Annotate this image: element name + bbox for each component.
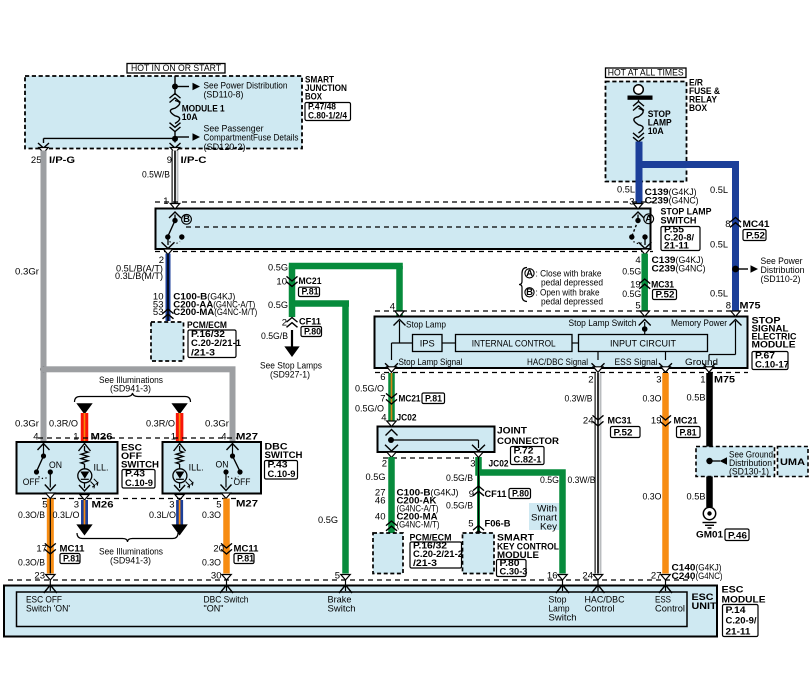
svg-text:JC02: JC02 bbox=[397, 413, 417, 424]
svg-text:C240(G4NC): C240(G4NC) bbox=[672, 571, 723, 582]
svg-text:P.81: P.81 bbox=[680, 427, 698, 438]
svg-text:0.5L: 0.5L bbox=[617, 185, 635, 196]
svg-text:24: 24 bbox=[582, 571, 593, 582]
svg-text:(SD110-8): (SD110-8) bbox=[204, 90, 244, 101]
svg-text:8: 8 bbox=[726, 301, 731, 312]
svg-text:B: B bbox=[526, 287, 533, 298]
svg-text:5: 5 bbox=[635, 301, 640, 312]
svg-text:C.10-9: C.10-9 bbox=[268, 469, 296, 480]
svg-text:P.52: P.52 bbox=[746, 230, 765, 241]
svg-text:/21-3: /21-3 bbox=[413, 558, 437, 569]
svg-text:UMA: UMA bbox=[780, 457, 805, 468]
svg-text:ON: ON bbox=[49, 460, 62, 471]
svg-text:B: B bbox=[183, 214, 190, 225]
svg-text:pedal depressed: pedal depressed bbox=[541, 297, 603, 308]
svg-text:A: A bbox=[645, 213, 652, 224]
svg-text:C.10-9: C.10-9 bbox=[125, 478, 153, 489]
svg-text:Stop Lamp: Stop Lamp bbox=[406, 320, 446, 331]
svg-text:M26: M26 bbox=[91, 432, 113, 443]
svg-text:P.46: P.46 bbox=[728, 530, 747, 541]
svg-text:0.3O: 0.3O bbox=[202, 510, 221, 521]
svg-text:0.3O: 0.3O bbox=[202, 558, 221, 569]
svg-text:MODULE: MODULE bbox=[722, 595, 766, 606]
svg-text:IPS: IPS bbox=[420, 339, 435, 350]
svg-text:3: 3 bbox=[470, 459, 475, 470]
svg-text:0.3O/B: 0.3O/B bbox=[18, 510, 45, 521]
svg-text:0.3R/O: 0.3R/O bbox=[49, 419, 78, 430]
svg-text:Switch: Switch bbox=[328, 604, 356, 615]
svg-text:ESS Signal: ESS Signal bbox=[615, 357, 658, 368]
svg-text:F06-B: F06-B bbox=[485, 519, 511, 530]
svg-text:MODULE: MODULE bbox=[752, 340, 796, 351]
svg-text:C239(G4NC): C239(G4NC) bbox=[652, 264, 706, 275]
svg-text:0.5G: 0.5G bbox=[540, 475, 559, 486]
svg-text:ON: ON bbox=[216, 460, 229, 471]
svg-text:"ON": "ON" bbox=[204, 604, 224, 615]
svg-text:17: 17 bbox=[36, 544, 47, 555]
svg-text:(SD130-1): (SD130-1) bbox=[729, 467, 769, 478]
svg-text:(G4NC-M/T): (G4NC-M/T) bbox=[397, 520, 440, 531]
svg-text:4: 4 bbox=[381, 413, 386, 424]
svg-text:0.5G/B: 0.5G/B bbox=[446, 473, 473, 484]
svg-text:C239(G4NC): C239(G4NC) bbox=[645, 196, 699, 207]
svg-text:CF11: CF11 bbox=[485, 489, 508, 500]
svg-text:21-11: 21-11 bbox=[726, 626, 752, 637]
svg-text:0.5G: 0.5G bbox=[268, 300, 288, 311]
svg-text:(SD941-3): (SD941-3) bbox=[110, 556, 151, 567]
svg-text:40: 40 bbox=[375, 512, 386, 523]
svg-text:JOINT: JOINT bbox=[497, 426, 527, 437]
svg-text:P.81: P.81 bbox=[425, 393, 443, 404]
svg-text:P.14: P.14 bbox=[726, 605, 747, 616]
svg-text:3: 3 bbox=[74, 500, 79, 511]
svg-text:9: 9 bbox=[167, 155, 172, 166]
svg-text:BOX: BOX bbox=[689, 103, 708, 114]
svg-text:10A: 10A bbox=[182, 112, 198, 123]
svg-text:M27: M27 bbox=[236, 432, 258, 443]
svg-text:5: 5 bbox=[468, 519, 473, 530]
svg-text:3: 3 bbox=[169, 500, 174, 511]
svg-text:ILL.: ILL. bbox=[94, 463, 109, 474]
svg-text:6: 6 bbox=[380, 372, 385, 383]
svg-text:M75: M75 bbox=[714, 375, 736, 386]
svg-text:0.3W/B: 0.3W/B bbox=[565, 394, 593, 405]
svg-text:P.52: P.52 bbox=[614, 427, 633, 438]
svg-text:0.5B: 0.5B bbox=[687, 492, 706, 503]
svg-text:0.3Gr: 0.3Gr bbox=[205, 419, 229, 430]
svg-text:C.82-1: C.82-1 bbox=[514, 454, 543, 465]
svg-text:19: 19 bbox=[651, 416, 662, 427]
svg-text:HOT AT ALL TIMES: HOT AT ALL TIMES bbox=[608, 68, 684, 79]
svg-text:OFF: OFF bbox=[23, 477, 40, 488]
svg-text:0.5G: 0.5G bbox=[622, 289, 641, 300]
svg-text:M27: M27 bbox=[236, 499, 258, 510]
svg-text:P.81: P.81 bbox=[302, 286, 320, 297]
svg-text:(SD927-1): (SD927-1) bbox=[270, 370, 310, 381]
svg-text:C200-MA(G4NC-M/T): C200-MA(G4NC-M/T) bbox=[173, 307, 257, 318]
svg-text:10: 10 bbox=[276, 277, 287, 288]
svg-text:INTERNAL CONTROL: INTERNAL CONTROL bbox=[472, 339, 556, 350]
svg-text:0.5G: 0.5G bbox=[622, 267, 641, 278]
svg-text:4: 4 bbox=[33, 432, 38, 443]
svg-text:21-11: 21-11 bbox=[664, 240, 690, 251]
svg-text:5: 5 bbox=[216, 500, 221, 511]
svg-text:0.3O: 0.3O bbox=[643, 394, 662, 405]
svg-text:Switch 'ON': Switch 'ON' bbox=[26, 604, 70, 615]
svg-text:C.30-3: C.30-3 bbox=[500, 566, 528, 577]
svg-text:9: 9 bbox=[469, 489, 474, 500]
svg-text:I/P-C: I/P-C bbox=[181, 155, 207, 166]
svg-text:P.80: P.80 bbox=[512, 488, 529, 499]
svg-text:5: 5 bbox=[42, 500, 47, 511]
svg-text:C.10-17: C.10-17 bbox=[755, 359, 789, 370]
svg-text:INPUT CIRCUIT: INPUT CIRCUIT bbox=[610, 339, 676, 350]
svg-text:0.5G/O: 0.5G/O bbox=[355, 404, 384, 415]
svg-text:Control: Control bbox=[655, 604, 685, 615]
svg-text:(SD110-2): (SD110-2) bbox=[761, 274, 801, 285]
svg-text:27: 27 bbox=[651, 571, 662, 582]
svg-text:(SD941-3): (SD941-3) bbox=[110, 383, 151, 394]
svg-text:0.3L/B(M/T): 0.3L/B(M/T) bbox=[115, 271, 163, 282]
svg-text:0.5G/B: 0.5G/B bbox=[261, 331, 288, 342]
svg-text:P.52: P.52 bbox=[656, 289, 675, 300]
svg-text:16: 16 bbox=[547, 571, 558, 582]
svg-text:8: 8 bbox=[725, 219, 730, 230]
svg-text:0.5L: 0.5L bbox=[710, 289, 728, 300]
svg-text:53: 53 bbox=[153, 307, 164, 318]
svg-text:MC31: MC31 bbox=[608, 416, 633, 427]
svg-text:2: 2 bbox=[588, 375, 593, 386]
svg-text:0.5L: 0.5L bbox=[710, 240, 728, 251]
svg-text:C.80-1/2/4: C.80-1/2/4 bbox=[308, 110, 348, 121]
svg-text:0.3W/B: 0.3W/B bbox=[568, 475, 596, 486]
svg-text:0.5W/B: 0.5W/B bbox=[142, 170, 170, 181]
svg-text:0.3Gr: 0.3Gr bbox=[15, 419, 39, 430]
svg-text:0.3R/O: 0.3R/O bbox=[146, 419, 175, 430]
svg-text:UNIT: UNIT bbox=[692, 601, 717, 612]
svg-text:1: 1 bbox=[171, 432, 176, 443]
svg-text:4: 4 bbox=[221, 432, 226, 443]
svg-text:Stop Lamp Switch: Stop Lamp Switch bbox=[569, 318, 637, 329]
svg-text:/21-3: /21-3 bbox=[191, 347, 215, 358]
svg-text:20: 20 bbox=[213, 544, 224, 555]
svg-text:OFF: OFF bbox=[234, 477, 251, 488]
svg-text:P.81: P.81 bbox=[63, 553, 81, 564]
svg-text:3: 3 bbox=[656, 375, 661, 386]
svg-text:M75: M75 bbox=[740, 301, 762, 312]
svg-text:HAC/DBC Signal: HAC/DBC Signal bbox=[527, 357, 588, 368]
svg-text:MC21: MC21 bbox=[674, 416, 699, 427]
svg-text:0.5G: 0.5G bbox=[366, 472, 386, 483]
svg-text:MC21: MC21 bbox=[399, 394, 422, 405]
svg-text:A: A bbox=[526, 268, 533, 279]
svg-text:24: 24 bbox=[583, 416, 594, 427]
svg-text:Memory Power: Memory Power bbox=[671, 318, 727, 329]
svg-text:2: 2 bbox=[382, 459, 387, 470]
svg-text:0.5L: 0.5L bbox=[710, 185, 728, 196]
svg-text:1: 1 bbox=[700, 375, 705, 386]
svg-text:25: 25 bbox=[31, 155, 42, 166]
svg-text:0.3L/O: 0.3L/O bbox=[149, 510, 176, 521]
svg-text:JC02: JC02 bbox=[489, 459, 509, 470]
svg-text:0.5B: 0.5B bbox=[687, 393, 706, 404]
svg-text:Switch: Switch bbox=[549, 613, 577, 624]
svg-text:0.5G/B: 0.5G/B bbox=[446, 501, 473, 512]
svg-text:GM01: GM01 bbox=[696, 530, 724, 541]
svg-text:0.5G: 0.5G bbox=[268, 263, 288, 274]
svg-text:M26: M26 bbox=[92, 500, 114, 511]
svg-text:0.5G: 0.5G bbox=[318, 515, 338, 526]
svg-text:P.80: P.80 bbox=[304, 326, 321, 337]
svg-text:0.3L/O: 0.3L/O bbox=[53, 510, 80, 521]
svg-text:I/P-G: I/P-G bbox=[49, 155, 75, 166]
svg-text:0.3O/B: 0.3O/B bbox=[18, 558, 45, 569]
svg-text:Control: Control bbox=[585, 604, 615, 615]
svg-text:Key: Key bbox=[540, 522, 557, 533]
svg-text:C.20-9/: C.20-9/ bbox=[726, 616, 757, 627]
svg-text:ILL.: ILL. bbox=[189, 463, 204, 474]
svg-text:HOT IN ON OR START: HOT IN ON OR START bbox=[131, 63, 221, 74]
svg-text:0.3Gr: 0.3Gr bbox=[15, 267, 39, 278]
svg-text:1: 1 bbox=[73, 432, 78, 443]
svg-text:4: 4 bbox=[635, 255, 640, 266]
svg-text:P.81: P.81 bbox=[237, 553, 255, 564]
svg-text:Stop Lamp Signal: Stop Lamp Signal bbox=[399, 357, 463, 368]
svg-text:2: 2 bbox=[282, 318, 287, 329]
svg-text:10A: 10A bbox=[648, 126, 664, 137]
svg-text:0.3O: 0.3O bbox=[643, 492, 662, 503]
svg-text:(SD120-2): (SD120-2) bbox=[204, 142, 246, 153]
svg-text:5: 5 bbox=[335, 571, 340, 582]
svg-text:MC41: MC41 bbox=[743, 219, 771, 230]
svg-text:46: 46 bbox=[375, 496, 386, 507]
